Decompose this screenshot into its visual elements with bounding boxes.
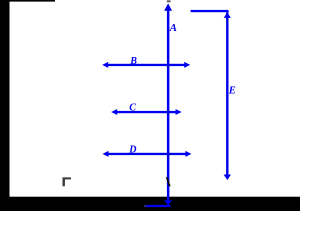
arrowhead up at top of main vertical xyxy=(164,3,172,10)
wire: bottom short horizontal underline xyxy=(147,205,171,207)
arrowhead down at bottom of main vertical xyxy=(164,200,172,205)
svg-text:A: A xyxy=(169,22,177,34)
svg-text:E: E xyxy=(228,86,236,97)
black bottom band xyxy=(0,197,300,211)
svg-text:B: B xyxy=(129,56,137,67)
svg-text:D: D xyxy=(128,145,136,156)
wire: main vertical line (shaft) xyxy=(167,9,170,202)
wire: right vertical line (shaft) xyxy=(226,12,228,176)
black top-left edge line xyxy=(0,0,55,2)
arrowhead down at bottom of right vertical xyxy=(224,175,231,181)
gray corner mark near left (Γ) xyxy=(63,177,72,186)
arrowhead up at top of right vertical xyxy=(224,12,231,18)
black left border strip xyxy=(0,0,10,211)
black sliver notch crossing main vertical xyxy=(166,177,171,186)
wire: arrow B horizontal double-headed xyxy=(105,64,186,66)
gray speck above top arrow xyxy=(167,0,171,2)
svg-text:C: C xyxy=(129,102,136,113)
wire: arrow D horizontal double-headed xyxy=(105,153,188,155)
wire: arrow C horizontal double-headed xyxy=(114,111,179,113)
wire: top-right horizontal segment xyxy=(191,10,229,12)
